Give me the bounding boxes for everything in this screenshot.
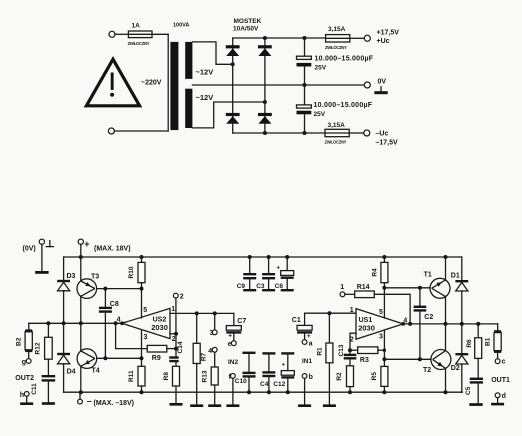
svg-text:+: + (282, 362, 286, 368)
svg-text:3,15A: 3,15A (328, 26, 346, 33)
svg-text:C14: C14 (177, 341, 184, 353)
wire: US2 output rail (29, 322, 122, 324)
svg-text:g: g (22, 359, 26, 366)
terminal +supply (78, 239, 83, 244)
svg-text:R13: R13 (202, 370, 209, 382)
svg-text:25V: 25V (314, 111, 326, 118)
svg-text:R4: R4 (371, 268, 378, 277)
junction: output rail D1/D2 (460, 322, 464, 326)
capacitor C7 (electrolytic, to IN2 hot) (226, 313, 246, 340)
junction: US2 output apex (120, 321, 124, 325)
resistor R11 (128, 358, 145, 392)
decoupling capacitor C3 (256, 257, 275, 290)
pin 5 label and wire (141, 289, 143, 318)
svg-text:R2: R2 (336, 372, 343, 381)
wire: terminal 2 down to pin2/C14 node (175, 298, 177, 349)
svg-text:1: 1 (350, 307, 354, 314)
svg-text:IN2: IN2 (228, 359, 239, 366)
capacitor C5 (465, 379, 483, 404)
svg-text:~12V: ~12V (196, 93, 214, 102)
junction: bridge AC left (231, 62, 235, 66)
svg-text:R10: R10 (128, 266, 135, 278)
wire: D3 to output rail (63, 291, 65, 324)
svg-text:D3: D3 (67, 273, 76, 280)
junction: top rail filter cap (303, 36, 307, 40)
wire: fuse to -Uc terminal (349, 132, 364, 134)
wire: secondary bottom terminal to bridge (192, 102, 265, 128)
junction: R9/C14 node (174, 347, 178, 351)
svg-text:C8: C8 (110, 301, 119, 308)
svg-text:R3: R3 (360, 357, 369, 364)
junction: R3 to pin3 line (383, 349, 386, 352)
svg-text:T3: T3 (91, 274, 99, 281)
svg-text:5: 5 (143, 307, 147, 314)
svg-text:2: 2 (172, 336, 176, 343)
svg-text:+Uc: +Uc (377, 38, 390, 45)
terminal b with ground (298, 374, 313, 407)
svg-text:+: + (84, 239, 89, 249)
terminal 0V bottom section (39, 239, 44, 244)
junction: C8 top (103, 287, 107, 291)
decoupling capacitor C10 (235, 353, 256, 392)
junction: R1 top (327, 311, 331, 315)
svg-text:–: – (87, 396, 92, 406)
svg-text:5: 5 (379, 309, 383, 316)
svg-text:T1: T1 (424, 272, 432, 279)
terminal c (495, 359, 500, 364)
fuse 1A (ZWLOCZNY) (128, 23, 152, 47)
wire: R14 to output rail (374, 294, 410, 324)
svg-text:2: 2 (180, 294, 184, 301)
wire: IN1 / pin1 rail of US1 (305, 312, 356, 314)
svg-text:T4: T4 (92, 368, 100, 375)
transistor T3 (77, 257, 99, 323)
junction: bridge AC right (263, 100, 267, 104)
wire: D3 from +rail (63, 257, 65, 280)
svg-text:2030: 2030 (151, 323, 168, 332)
junction: +rail R4 (382, 255, 386, 259)
diode bridge bottom-left (226, 113, 240, 124)
junction: bottom rail filter cap (303, 131, 307, 135)
resistor R8 (163, 366, 180, 403)
svg-text:R12: R12 (35, 342, 42, 354)
terminal d with ground (491, 393, 506, 406)
wire: T3 base rail (97, 288, 142, 290)
terminal: mains input bottom (108, 128, 114, 134)
pin 2 stub (170, 333, 176, 335)
wire: input bottom to primary (114, 130, 168, 132)
transformer primary winding bar (170, 42, 178, 130)
junction: +rail C3 (267, 255, 271, 259)
transistor T2 (423, 324, 451, 392)
svg-text:C4: C4 (260, 381, 269, 388)
junction: pin1 rail terminal3 (213, 311, 217, 315)
resistor R4 (371, 257, 388, 288)
resistor R1 (316, 313, 333, 404)
capacitor C14 (169, 341, 184, 366)
terminal a (302, 340, 307, 345)
svg-text:R14: R14 (357, 284, 370, 291)
svg-text:4: 4 (208, 348, 212, 355)
svg-text:+: + (277, 265, 281, 271)
svg-text:R11: R11 (128, 370, 135, 382)
transformer secondary winding bar lower (185, 89, 192, 128)
diode D3 (57, 273, 75, 291)
svg-text:R6: R6 (466, 339, 473, 348)
junction: C8 bottom (103, 356, 107, 360)
resistor R9 (147, 345, 176, 362)
svg-text:D4: D4 (67, 369, 76, 376)
pin 3 wire and label (141, 330, 143, 358)
terminal e (231, 341, 236, 346)
svg-text:–17,5V: –17,5V (376, 140, 399, 147)
junction: bottom rail right column (263, 131, 267, 135)
ground bar below C5 (469, 403, 482, 406)
svg-text:D1: D1 (451, 273, 460, 280)
terminal 0V (364, 82, 370, 88)
terminal h with ground (20, 392, 33, 406)
fuse B1 (output right) (484, 324, 501, 359)
svg-text:B1: B1 (484, 337, 491, 346)
svg-text:100VA: 100VA (173, 23, 189, 29)
svg-text:R5: R5 (371, 372, 378, 381)
terminal 1 (bridge input) (340, 292, 345, 297)
junction: output rail T1/T2 (444, 322, 448, 326)
svg-text:1A: 1A (132, 23, 141, 30)
svg-text:C6: C6 (275, 283, 284, 290)
svg-text:~12V: ~12V (196, 68, 214, 77)
wire: T1 base rail (384, 287, 430, 289)
svg-text:MOSTEK: MOSTEK (234, 18, 262, 25)
svg-text:2: 2 (350, 336, 354, 343)
junction: +rail C6 (285, 255, 289, 259)
wire: US1 output rail (403, 323, 498, 325)
junction: -rail T2 (444, 390, 448, 394)
junction: -rail T4 (79, 390, 83, 394)
svg-text:D2: D2 (451, 365, 460, 372)
junction: -rail R5 (382, 390, 386, 394)
junction: US1 output apex (401, 322, 405, 326)
junction: output rail R6 (476, 322, 480, 326)
resistor R3 (350, 347, 384, 364)
junction: -rail C4 (267, 390, 271, 394)
wire: secondary top terminal to bridge (192, 42, 232, 64)
junction: R10 bottom / pin5 (140, 287, 144, 291)
svg-text:C3: C3 (256, 283, 265, 290)
diode bridge top-left (cathode bar + filled triangle) (226, 45, 240, 56)
svg-text:IN1: IN1 (302, 358, 313, 365)
svg-text:10A/50V: 10A/50V (233, 26, 259, 33)
filter capacitor lower 10.000-15.000uF 25V (297, 85, 373, 133)
svg-text:C9: C9 (237, 283, 246, 290)
svg-text:+: + (228, 333, 232, 340)
svg-text:e: e (228, 341, 232, 348)
ground bar below R1 (323, 404, 336, 407)
capacitor C13 (338, 344, 356, 366)
svg-text:10.000–15.000µF: 10.000–15.000µF (315, 56, 374, 63)
fuse B2 (output left) (16, 323, 33, 358)
diode bridge bottom-right (258, 113, 272, 124)
svg-text:–Uc: –Uc (376, 131, 389, 138)
svg-text:(MAX. 18V): (MAX. 18V) (94, 246, 131, 253)
resistor R2 (336, 366, 354, 392)
svg-text:1: 1 (340, 284, 344, 291)
junction: -rail R2 (348, 390, 352, 394)
junction: -rail R11 (140, 390, 144, 394)
filter capacitor upper 10.000-15.000uF 25V (297, 38, 374, 85)
op-amp US2 2030 (points left) (122, 308, 170, 338)
svg-text:C1: C1 (292, 317, 301, 324)
decoupling capacitor C9 (237, 257, 257, 290)
svg-text:c: c (502, 358, 506, 365)
svg-text:b: b (309, 374, 313, 381)
terminal 4 (208, 347, 217, 354)
terminal +Uc (364, 35, 370, 41)
svg-text:T2: T2 (423, 367, 431, 374)
svg-text:ZWŁOCZNY: ZWŁOCZNY (128, 41, 150, 46)
wire: + terminal to +rail (80, 244, 82, 257)
wire: T4 base rail (97, 357, 142, 359)
ground bar at 0V terminal (35, 271, 48, 274)
svg-text:0V: 0V (378, 79, 387, 86)
junction: pin3 / T2 base (382, 357, 386, 361)
wire: 0V terminal down (41, 244, 43, 271)
junction: C2 top (418, 286, 422, 290)
terminal g (26, 359, 31, 364)
svg-text:(0V): (0V) (23, 246, 36, 253)
transistor T1 (424, 257, 450, 324)
resistor R13 (202, 352, 219, 404)
transformer T primary winding wire (167, 34, 169, 131)
junction: C2 bottom (418, 357, 422, 361)
junction: +rail T1 (444, 255, 448, 259)
diode bridge top-right (258, 45, 272, 56)
warning triangle with exclamation mark (86, 59, 139, 106)
junction: top rail right column (263, 36, 267, 40)
svg-text:3: 3 (379, 334, 383, 341)
junction: output rail D3/D4 (62, 321, 66, 325)
svg-text:C7: C7 (237, 318, 246, 325)
svg-text:d: d (502, 393, 506, 400)
svg-text:R9: R9 (152, 355, 161, 362)
svg-text:3,15A: 3,15A (328, 122, 346, 129)
terminal 2 (bridge input) (173, 293, 178, 298)
svg-text:10.000–15.000µF: 10.000–15.000µF (314, 102, 373, 109)
bridge rectifier column right wire (264, 38, 266, 133)
resistor R5 (371, 359, 388, 392)
junction: -rail C12 (286, 390, 290, 394)
svg-text:OUT1: OUT1 (491, 377, 510, 384)
diode D1 (451, 257, 468, 324)
ground bar below C11 (42, 402, 55, 405)
junction: -rail C10 (247, 390, 251, 394)
ground bar below R8 (170, 403, 183, 406)
svg-text:C12: C12 (273, 381, 285, 388)
svg-text:C2: C2 (424, 314, 433, 321)
terminal f with ground (226, 374, 239, 408)
ground bar below R13 (208, 404, 221, 407)
junction: output rail R12 (46, 321, 50, 325)
svg-text:ZWŁOCZNY: ZWŁOCZNY (325, 45, 347, 50)
fuse 3,15A bottom (325, 122, 350, 145)
junction: pin3 / R11 top (140, 356, 144, 360)
junction: pin2 node (174, 332, 178, 336)
svg-text:a: a (309, 340, 313, 347)
resistor R14 (345, 284, 374, 298)
pin 3 label and wire (383, 330, 385, 359)
wire: - rail to fuse (233, 132, 325, 134)
capacitor C8 (99, 289, 119, 359)
diode D4 (57, 323, 75, 392)
svg-text:1: 1 (171, 306, 175, 313)
op-amp US1 2030 (points right) (356, 309, 403, 340)
junction: output rail T3/T4 (79, 321, 83, 325)
svg-text:(MAX. –18V): (MAX. –18V) (94, 400, 134, 407)
decoupling capacitor C4 (260, 353, 275, 392)
resistor R10 (128, 257, 145, 289)
capacitor C1 (electrolytic input) (292, 313, 312, 340)
junction: output rail R14 (408, 322, 412, 326)
wire: fuse to +Uc terminal (350, 37, 365, 39)
terminal -supply (78, 392, 134, 407)
svg-text:R7: R7 (200, 352, 207, 361)
bridge rectifier column left wire (232, 38, 234, 133)
fuse 3,15A top (325, 26, 350, 50)
wire: feedback down-right to R9 (116, 323, 148, 348)
transformer secondary winding bar upper (185, 42, 192, 79)
junction: 0V rail at caps (303, 83, 307, 87)
junction: R4 bottom / T1 base rail (382, 286, 386, 290)
transistor T4 (77, 323, 100, 392)
resistor R6 (466, 324, 482, 379)
svg-text:C13: C13 (338, 344, 345, 356)
pin 1 wire (to input network) (170, 312, 234, 314)
capacitor C2 (414, 288, 434, 360)
wire: secondary centre tap to 0V terminal (192, 84, 364, 86)
wire: + rail to fuse (233, 37, 326, 39)
svg-text:25V: 25V (315, 65, 327, 72)
wire: T2 base rail (384, 358, 431, 360)
svg-text:B2: B2 (16, 337, 23, 346)
terminal 3 (210, 313, 218, 337)
wire: input top to fuse (115, 33, 128, 35)
resistor R7 (193, 313, 207, 404)
svg-text:h: h (20, 392, 24, 399)
svg-text:3: 3 (210, 330, 214, 337)
junction: pin1 rail R7 (195, 311, 199, 315)
svg-text:~220V: ~220V (141, 80, 162, 87)
wire: fuse to transformer primary (152, 33, 168, 35)
junction: +rail R10 (140, 255, 144, 259)
svg-text:C11: C11 (31, 383, 38, 395)
svg-text:+17,5V: +17,5V (377, 30, 400, 37)
svg-text:C10: C10 (235, 378, 247, 385)
junction: +rail C9 (248, 255, 252, 259)
svg-text:R1: R1 (316, 347, 323, 356)
capacitor C11 (31, 376, 55, 402)
junction: +rail T3 collector (79, 255, 83, 259)
terminal: mains input top (109, 31, 115, 37)
diode D2 (451, 324, 468, 392)
wire: negative supply rail (64, 391, 463, 393)
decoupling capacitor C12 (electrolytic) (273, 353, 294, 392)
svg-text:2030: 2030 (358, 324, 375, 333)
decoupling capacitor C6 (electrolytic) (275, 257, 294, 290)
pin 2 stub and label (350, 333, 356, 355)
svg-text:OUT2: OUT2 (15, 375, 34, 382)
svg-text:ZWŁOCZNY: ZWŁOCZNY (325, 140, 347, 145)
junction: feedback tap (114, 321, 118, 325)
ground bar below R7 (190, 404, 203, 407)
ground symbol at 0V terminal (374, 87, 387, 94)
svg-text:C5: C5 (465, 386, 472, 395)
terminal -Uc (364, 130, 370, 136)
wire: + supply rail (64, 256, 462, 258)
ground reference symbol (perpendicular mark) (46, 241, 53, 247)
svg-text:3: 3 (144, 334, 148, 341)
pin 5 label and wire (383, 288, 385, 318)
resistor R12 (35, 323, 53, 376)
junction: R3 to C13 vertical (348, 348, 352, 352)
svg-text:R8: R8 (163, 372, 170, 381)
svg-text:+: + (307, 333, 311, 340)
